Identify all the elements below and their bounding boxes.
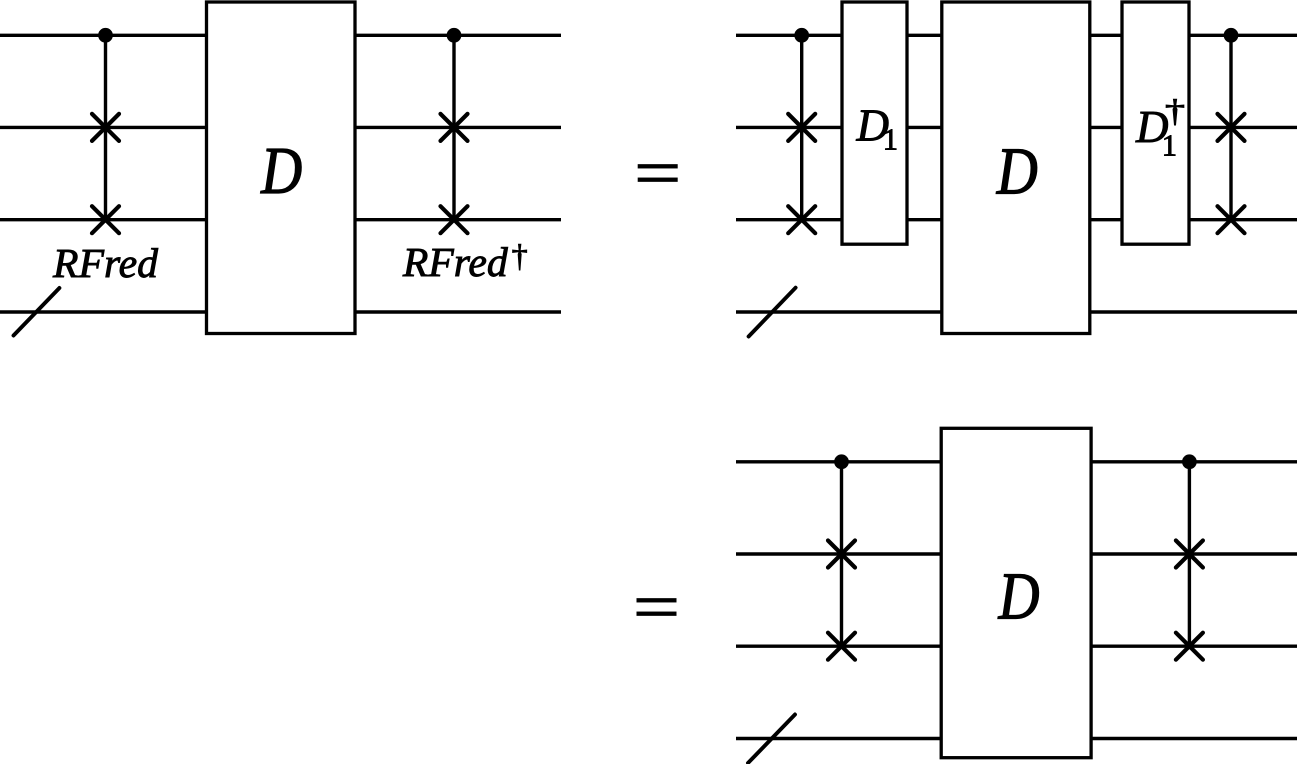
svg-text:D: D (998, 560, 1040, 634)
svg-text:†: † (512, 237, 528, 273)
svg-text:D: D (260, 134, 302, 208)
svg-text:1: 1 (883, 122, 898, 156)
svg-text:1: 1 (1162, 128, 1177, 162)
svg-text:†: † (1165, 93, 1185, 128)
svg-text:D: D (996, 134, 1038, 208)
svg-text:RFred: RFred (402, 240, 508, 286)
svg-text:RFred: RFred (52, 241, 158, 287)
